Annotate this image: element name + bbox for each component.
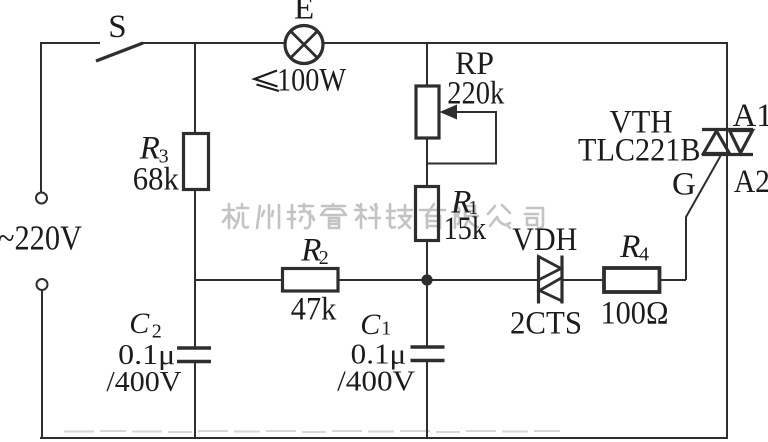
svg-text:2: 2 [152,320,162,342]
svg-text:1: 1 [381,318,391,340]
svg-text:C: C [360,308,381,341]
svg-text:100Ω: 100Ω [601,296,669,332]
svg-text:68k: 68k [133,162,179,198]
svg-text:R: R [139,131,160,167]
svg-text:G: G [672,167,696,203]
svg-text:/400V: /400V [106,366,181,398]
svg-text:2: 2 [319,247,329,269]
svg-text:1: 1 [468,197,478,219]
svg-text:E: E [294,0,314,27]
svg-text:220k: 220k [447,75,504,111]
svg-text:4: 4 [639,244,649,266]
svg-text:100W: 100W [277,63,347,99]
svg-text:S: S [108,9,126,45]
svg-text:/400V: /400V [337,366,415,398]
svg-text:~220V: ~220V [0,219,82,258]
svg-text:C: C [129,307,150,340]
svg-text:2CTS: 2CTS [510,305,582,341]
svg-text:47k: 47k [291,292,337,328]
svg-text:3: 3 [159,146,169,168]
svg-text:TLC221B: TLC221B [578,133,701,169]
svg-text:R: R [619,229,640,265]
svg-text:VDH: VDH [512,222,577,258]
svg-text:A1: A1 [733,98,768,134]
svg-text:A2: A2 [734,164,768,200]
